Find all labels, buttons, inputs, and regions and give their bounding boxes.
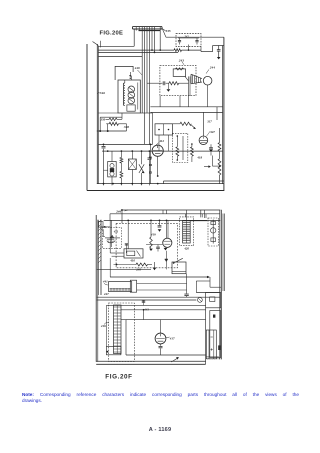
leader for 335 (162, 29, 166, 31)
junction dot b (107, 130, 109, 132)
receiver dashed enclosure (116, 223, 177, 267)
wire x186.6 vertical (186, 274, 188, 294)
feed down to y277 wire (109, 258, 111, 277)
wire unit box to battery (206, 356, 219, 358)
svg-text:449: 449 (134, 66, 140, 70)
right junction box (206, 292, 221, 307)
tube 417 envelope (155, 333, 166, 344)
stepped coil box inside 243 (173, 69, 185, 77)
junction dots on y144 and y151 (103, 144, 105, 146)
resistor 359 vertical (191, 144, 193, 147)
cathode capacitor 421 (157, 245, 159, 247)
detector lower plate (107, 238, 114, 240)
leader 347 (207, 131, 211, 136)
bus wire drop 1 (141, 27, 143, 113)
bottom bus right vertical (205, 355, 207, 364)
svg-text:317: 317 (206, 119, 212, 123)
svg-text:410: 410 (129, 259, 135, 263)
staircase wire to lower box (209, 277, 211, 281)
transformer secondary wire (190, 220, 207, 222)
ground plane hatched bar (97, 220, 99, 295)
wire left of shield box bottom (98, 112, 118, 114)
vibrator lower contact circle (110, 172, 114, 176)
ground leg inside 243 (167, 83, 169, 89)
oscillator unit box 449 (115, 66, 133, 80)
tube 412 grid and plate (153, 145, 162, 153)
antenna terminal box (99, 222, 104, 228)
tube 417 internals (156, 334, 165, 341)
fig20F right rail outer (220, 210, 222, 360)
crystal detector 411 element (110, 235, 114, 238)
main wire y144.4 (98, 143, 152, 145)
stub above row A (99, 41, 101, 48)
leader 243 (182, 62, 184, 65)
main wire y151.1 (102, 150, 223, 152)
dashed coil box 416 (109, 303, 135, 362)
wire bar stub to row A (133, 29, 135, 46)
shield inner right wall (137, 83, 139, 110)
svg-text:FIG.20E: FIG.20E (100, 30, 124, 36)
filter choke winding 416 (114, 305, 122, 354)
battery cell marks (211, 348, 213, 350)
svg-text:416: 416 (100, 324, 106, 328)
wire y277 with arrow (110, 276, 209, 278)
junction dot a (99, 130, 101, 132)
capacitor 424 (184, 293, 188, 295)
bottom bus wire 2 (96, 363, 205, 365)
transformer top feed (186, 210, 188, 221)
svg-text:350: 350 (100, 117, 106, 121)
coil winding inside shield (123, 83, 125, 106)
fig20E inner left vertical rail (96, 44, 98, 184)
contact diagonal inside 243 (185, 76, 189, 81)
svg-text:420: 420 (183, 246, 189, 250)
vibrator base rectangle (127, 105, 135, 111)
long vertical feed x122 (121, 210, 123, 223)
fig20E top-left corner diagonal (93, 42, 99, 46)
wire inside dashed box right (182, 136, 184, 160)
hatch strokes on bar (98, 220, 101, 263)
svg-text:441: 441 (102, 280, 108, 284)
svg-text:348: 348 (123, 125, 129, 129)
wire y319.6 left stub (121, 319, 126, 321)
stub horn to mid bus (207, 85, 209, 107)
svg-text:246: 246 (115, 210, 121, 214)
vibrator unit hatch strip (110, 289, 131, 290)
leader 244 (206, 70, 209, 74)
dashed rectifier box 422 (208, 218, 218, 246)
fig20F top wire 1 (121, 209, 220, 211)
polarized capacitor 360 (210, 144, 212, 147)
battery enclosure outer (210, 311, 221, 358)
lower-right box top edge (196, 292, 220, 294)
triode tube 412 envelope (152, 145, 163, 156)
shield box 346 (118, 80, 140, 113)
tube 417 cathode capacitor (160, 344, 162, 346)
series capacitor plates inside 243 (162, 81, 164, 85)
wire row B horizontal (98, 49, 174, 51)
meter box 423 (172, 262, 186, 274)
switch arm diagonal (174, 258, 183, 263)
vibrator element box 353 (108, 162, 117, 177)
fig20F top wire 2 left drop (109, 214, 111, 221)
stubs from IF box down (158, 135, 160, 151)
leader 416 (104, 322, 109, 324)
svg-text:242: 242 (184, 36, 190, 39)
wire row B continues to right rail (182, 49, 202, 51)
down arrow at y269 (154, 262, 156, 268)
mid bus wire y112.4 (150, 111, 222, 113)
vibrator stack circles (128, 86, 135, 93)
vertical x205 to bottom bus (205, 320, 207, 355)
tube 415 envelope (163, 238, 172, 247)
wire row A horizontal (98, 45, 134, 47)
amplifier unit box (126, 320, 206, 355)
detector cup (107, 240, 115, 242)
lower unit box left edge (105, 305, 107, 346)
wire top-right from bar to right rail (162, 28, 166, 37)
lower unit box top edge (106, 304, 205, 306)
fig20F right secondary rails (222, 214, 224, 292)
resistor 243a on row B (174, 49, 182, 52)
bottom bus wire 1 (96, 360, 205, 362)
leader 441 (104, 283, 108, 285)
relay box 410 (124, 249, 143, 258)
leader 246 (125, 210, 129, 211)
horn driver cone 244 (191, 74, 202, 84)
bias network L wire (212, 156, 214, 167)
leader 449 (138, 70, 143, 76)
vibrator reed inside 449 (129, 72, 131, 76)
fig20F right rail inner (219, 210, 221, 359)
shield box top lead (130, 76, 132, 80)
fig20F left rail (95, 215, 97, 362)
wire y269.4 (97, 268, 151, 270)
fig20F top wire 2 (110, 213, 220, 215)
horn driver diaphragm circle 244 (203, 76, 212, 85)
battery box dashed bottom (207, 358, 221, 360)
svg-text:411: 411 (113, 229, 119, 233)
bus wire drop 5 (151, 27, 153, 50)
dashed filter box 242 (176, 34, 201, 47)
svg-text:243: 243 (178, 58, 184, 62)
bus step wire right portion (164, 180, 224, 182)
mid bus wire y106.8 (150, 106, 222, 108)
choke base box (106, 347, 121, 355)
tube 417 plate lead (160, 320, 162, 334)
junction x143.6 (143, 309, 145, 311)
svg-text:418: 418 (196, 155, 202, 159)
leader 346 (97, 93, 99, 94)
bottom bus junction dots (103, 183, 105, 185)
capacitor inside box left (179, 38, 181, 40)
wire y355 bottom of unit (126, 354, 206, 356)
IF transformer box 351 (155, 124, 173, 135)
bottom bus wire (97, 183, 224, 185)
dashed detector box 243 (160, 65, 196, 95)
crystal detector 411 plate (105, 237, 120, 239)
bus wire y300 (97, 299, 197, 301)
stub wires for 348/350 (99, 117, 101, 131)
stub detector box to mid bus left (159, 96, 161, 107)
bus step vertical (163, 181, 165, 184)
L-wire from bar to detector (101, 230, 105, 237)
variable condenser X 356 (139, 164, 144, 173)
resistor 413 with ground arrow (150, 220, 152, 237)
svg-text:419: 419 (150, 233, 156, 237)
feed pair to rectifier box a (200, 210, 202, 217)
series capacitor ticks on x150.4 (149, 144, 151, 156)
arrow 352 wiper (191, 125, 195, 129)
switch box leads (131, 151, 133, 159)
stub detector box to mid bus right (179, 96, 181, 107)
switch box 355 (128, 159, 136, 170)
leader 417 (166, 336, 170, 339)
battery terminal dark blob (213, 315, 215, 318)
input wire into box 243 (147, 82, 162, 84)
fig20E outer frame left border (86, 44, 88, 191)
filter box internal top wire (178, 37, 199, 39)
diagonal arrow switch 425 (171, 358, 178, 362)
wire detector to relay box b (112, 255, 124, 257)
wire from ground bar to detector (101, 226, 110, 228)
polarized capacitor 414 (159, 220, 161, 225)
horn driver coil hatch (192, 75, 200, 84)
detector dashed enclosure (103, 228, 122, 249)
svg-text:447: 447 (103, 292, 109, 296)
wire from vibrator box right b (137, 289, 187, 291)
capacitor inside box right (196, 38, 198, 40)
wire feed into vibrator box (111, 151, 113, 161)
resistor 358 inside dashed box (176, 136, 178, 147)
capacitor on bus2 (143, 300, 145, 305)
wire stub from mid bus down to tube 347 (202, 112, 204, 136)
fig20E outer frame right border (223, 37, 225, 190)
wire row D horizontal (98, 56, 142, 58)
relay inner box (127, 251, 135, 256)
resistor 354 vertical (120, 151, 122, 157)
tube 415 grid hatch (164, 241, 171, 244)
svg-text:335: 335 (165, 29, 171, 33)
capacitor polarity arrow (217, 57, 221, 59)
bus wire y297.2 (97, 296, 220, 298)
vibrator armature dark block (110, 168, 114, 172)
svg-text:347: 347 (209, 130, 215, 134)
wire y309.8 from choke (121, 309, 206, 311)
junction wire row at y117 (100, 116, 122, 118)
ground return wire y131 (97, 130, 127, 132)
resistor 348a (109, 122, 118, 125)
coupling capacitor C103 (103, 144, 105, 145)
wire row C horizontal (98, 51, 178, 53)
svg-text:244: 244 (209, 66, 215, 70)
junction dot 248 (116, 264, 118, 266)
bus wire drop 3 (146, 27, 148, 113)
wire into tube 415 left (146, 244, 163, 246)
antenna bus bar 335 (133, 26, 163, 28)
feed pair to transformer box (185, 214, 187, 217)
dashed transformer box 420 (180, 217, 194, 246)
zigzag on coil box top (176, 68, 184, 70)
fig20F top wire 3 (104, 219, 221, 221)
feed pair down to relay (109, 220, 111, 253)
wire right of shield box bottom (140, 112, 152, 114)
voltage divider resistor chain 361 (219, 128, 221, 143)
small capacitor near relay (125, 244, 127, 254)
tube 415 cathode return (165, 251, 167, 270)
svg-text:346: 346 (99, 91, 105, 95)
right rail stub x217 (216, 107, 218, 120)
vibrator stack hatch (129, 88, 134, 103)
stub rail to vibrator box (104, 169, 108, 171)
jog verticals top-left (162, 210, 164, 214)
bypass capacitor x149.4 (148, 151, 150, 157)
resistor 248a (114, 264, 137, 266)
filter box bottom stub (188, 45, 190, 51)
transformer winding 420 (183, 221, 191, 243)
arrow pointer 418 (204, 166, 210, 168)
bus wire drop 6 (154, 27, 156, 53)
wire y287.2 to right rail (209, 281, 211, 287)
battery terminal blob (218, 345, 220, 350)
relay contact diagonal (137, 251, 141, 257)
bus wire drop 4 (149, 27, 151, 145)
svg-text:417: 417 (169, 337, 175, 341)
vertical feed to relay x128 (127, 220, 129, 248)
double vertical to output (188, 76, 190, 106)
vibrator unit box 441 (109, 282, 132, 292)
vibrator nested box (130, 280, 136, 292)
leader 412 (155, 143, 158, 147)
vertical drop x152.5 (152, 113, 154, 144)
resistor 352 (180, 122, 191, 125)
fig20E outer frame bottom border (87, 190, 224, 192)
vibrator upper contact circle (110, 164, 114, 168)
rectifier element stack (212, 220, 214, 244)
fuse box on bus (210, 297, 215, 302)
svg-text:FIG.20F: FIG.20F (105, 373, 132, 380)
wire detector to relay box a (110, 252, 124, 254)
resistor 245 inside detector box (169, 82, 179, 85)
svg-text:412: 412 (158, 139, 164, 143)
tube 412 cathode stem (157, 156, 159, 176)
resistor 350a (109, 118, 117, 121)
bus wire drop 2 (144, 27, 146, 145)
plate feed double wire to tube 415 (166, 220, 168, 238)
bar ticks (135, 27, 137, 31)
wire from vibrator box right a (137, 283, 187, 285)
right junction box connector (205, 308, 207, 320)
feed pair to rectifier box b (204, 210, 206, 218)
capacitor C-right plates (213, 45, 224, 47)
bus wire drop 7 (159, 27, 161, 50)
battery box right (206, 330, 216, 359)
tube 347 electrodes (200, 137, 207, 143)
pilot lamp 426 (198, 298, 203, 303)
tube 415 cathode triangle (164, 248, 168, 251)
dashed bias box 357 (172, 133, 187, 162)
pentode tube 347 envelope (199, 136, 208, 145)
